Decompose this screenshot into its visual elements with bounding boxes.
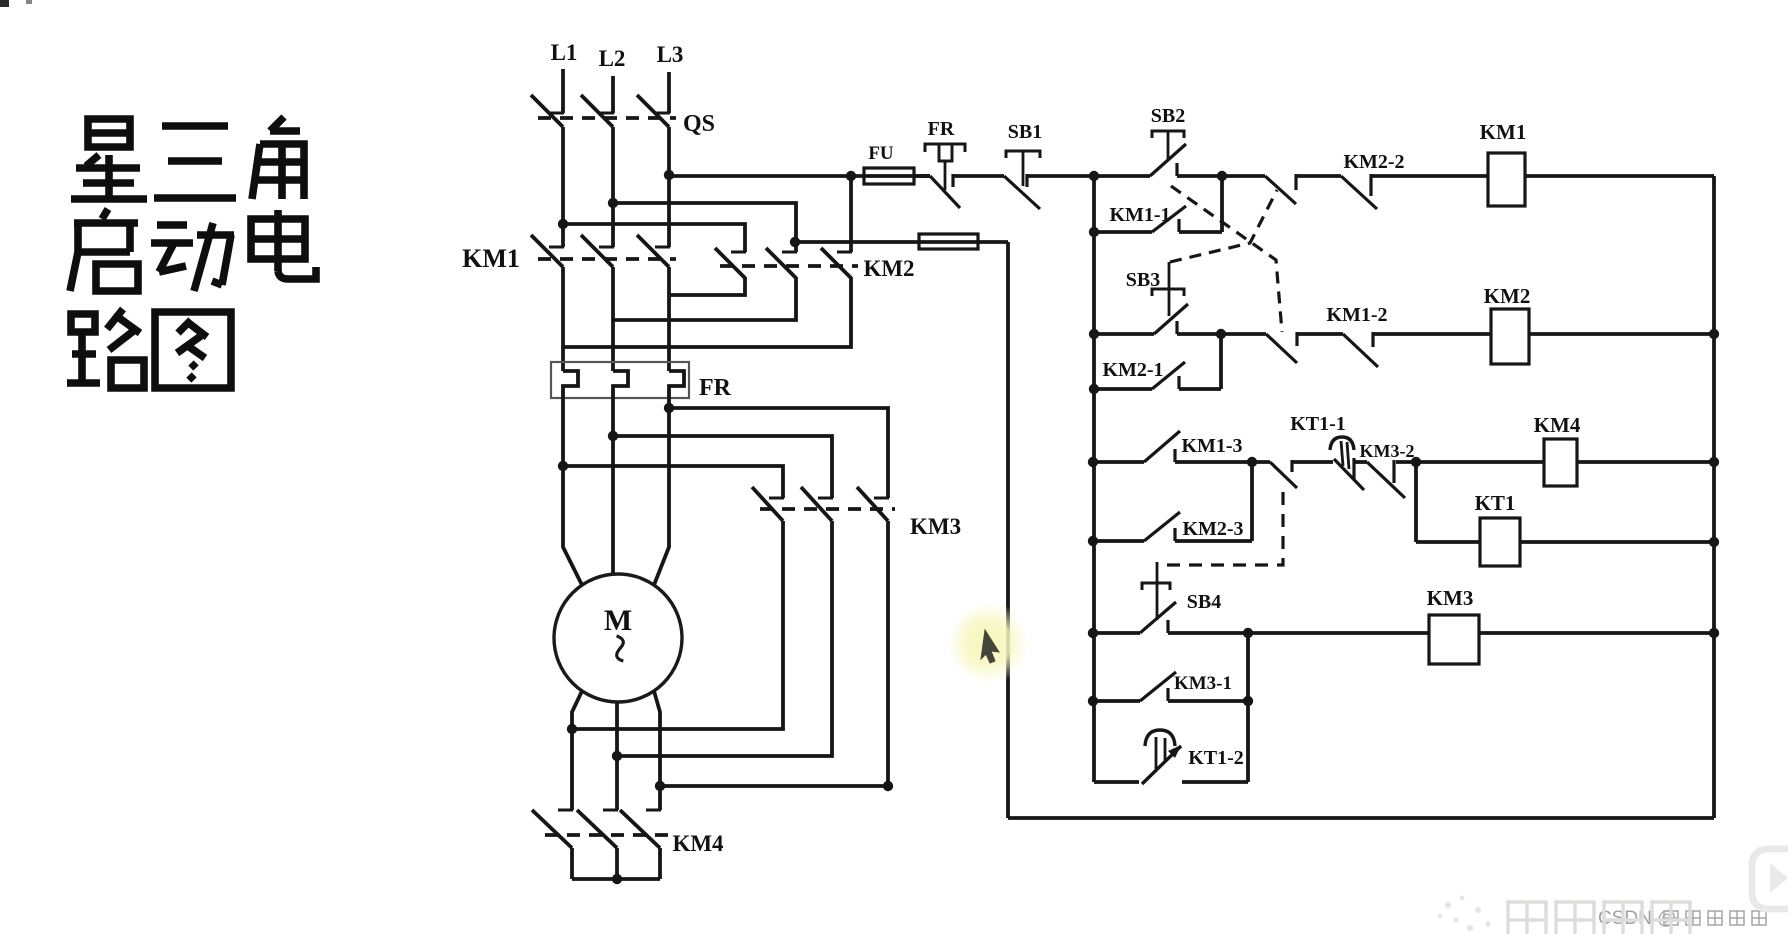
coil KM1 (1488, 153, 1525, 206)
wire rung1 to NC (1222, 174, 1265, 178)
wire motor lead mid (611, 398, 615, 575)
KM2-1 branch left wire (1094, 387, 1152, 391)
wire rung2 to KM1-2 (1297, 332, 1343, 336)
wire motor bottom mid (615, 702, 619, 810)
node L3 tap to KM3 (664, 403, 674, 413)
contactor KM2 pole 1 (731, 251, 746, 254)
node rung2 junction (1216, 329, 1226, 339)
svg-text:FU: FU (868, 143, 894, 164)
contactor KM4 pole 2 (603, 809, 618, 812)
SB3 stem (1168, 262, 1171, 316)
KT1-2 rung right wire (1182, 780, 1248, 784)
wire KM1 pole2 down (611, 267, 615, 371)
dashed link KT1-1 to SB4 (1162, 492, 1283, 565)
SB1 NC contact (1004, 176, 1040, 209)
SB4 linked NC contact rung3 (1270, 462, 1297, 488)
fuse FU body (864, 168, 914, 184)
KM2-1 branch vertical (1219, 334, 1223, 389)
svg-text:KM2-2: KM2-2 (1343, 151, 1404, 173)
node KM3 pole3 corner (883, 781, 893, 791)
SB1 stem (1022, 151, 1025, 186)
node right rail rung4 (1709, 628, 1719, 638)
coil KM3 (1429, 615, 1479, 664)
svg-text:KT1-2: KT1-2 (1188, 747, 1244, 769)
wire SB2 right (1177, 174, 1222, 178)
wire KT1-1 to KM3-2 (1354, 460, 1367, 464)
KM1-1 branch right wire (1179, 230, 1222, 234)
wire L3 to KM3 pole3 (669, 408, 888, 498)
wire FU to FR contact (914, 174, 930, 178)
wire FU node down to KM2 pole3 (849, 176, 853, 252)
wire to KT1-1 (1292, 460, 1333, 464)
node L2 tap to KM3 (608, 431, 618, 441)
node L1 tap (558, 219, 568, 229)
coil KM2 (1491, 309, 1529, 364)
KT1-2 NO delayed contact (1142, 746, 1181, 784)
node rail A km3-1 (1088, 696, 1098, 706)
wire L1 incoming (561, 69, 565, 113)
SB3 actuator (1152, 289, 1184, 296)
node rung3 junction (1247, 457, 1257, 467)
KT1 branch vertical (1414, 462, 1418, 542)
KM2-1 branch right wire (1179, 387, 1221, 391)
node L2 tap (608, 198, 618, 208)
wire through fuse FU (851, 174, 930, 178)
SB2 linked NC contact rung2 (1266, 334, 1297, 363)
wire to KM4 coil (1416, 460, 1544, 464)
wire KM3 pole1 down (572, 521, 783, 729)
SB4 actuator bar (1142, 583, 1170, 590)
contactor KM4 pole 1 (558, 809, 573, 812)
node rail A rung3 (1088, 457, 1098, 467)
KM3-1 branch vertical (1246, 633, 1250, 701)
wire KM1 pole1 down (561, 267, 565, 371)
node control tap 2 (790, 237, 800, 247)
wire L2 QS to KM1 (611, 127, 615, 247)
svg-text:KM2-3: KM2-3 (1182, 518, 1243, 540)
wire motor lead right (654, 398, 669, 585)
mouse cursor (981, 630, 999, 663)
wire KM2 coil to right rail (1529, 332, 1714, 336)
SB2 NO contact (1150, 144, 1186, 176)
FR control actuator (925, 144, 965, 152)
node motor mid / KM3 (612, 751, 622, 761)
wire KM3-2 to node (1396, 460, 1416, 464)
contactor KM1 pole 2 (599, 246, 614, 249)
svg-text:KM4: KM4 (672, 831, 724, 856)
wire motor bottom left (572, 691, 582, 810)
KM3-1 branch right wire (1168, 699, 1248, 703)
svg-text:KT1: KT1 (1475, 491, 1516, 515)
fuse FU2 body (919, 234, 978, 249)
svg-text:KM3: KM3 (1427, 586, 1474, 610)
wire tap to fuse 2 (795, 240, 1008, 244)
node motor left / KM3 (567, 724, 577, 734)
svg-text:KM3-2: KM3-2 (1360, 441, 1415, 461)
SB2 actuator (1152, 131, 1184, 138)
wire KM4 pole1 to star bus (570, 848, 574, 879)
svg-text:SB1: SB1 (1008, 121, 1042, 143)
SB3 linked NC contact rung1 (1265, 176, 1296, 204)
node L3 tap to FU (664, 170, 674, 180)
contactor KM4 pole 3 (646, 809, 661, 812)
dashed link SB3 to rung1 NC (1170, 190, 1277, 262)
svg-text:L1: L1 (551, 40, 578, 65)
svg-text:SB2: SB2 (1151, 105, 1185, 127)
KT1-2 delay arc (1145, 730, 1175, 746)
wire to KM3 coil (1248, 631, 1429, 635)
svg-text:KM1-1: KM1-1 (1109, 204, 1170, 226)
motor M circle (554, 574, 682, 702)
wire fuse2 down to bottom bus (1006, 242, 1010, 818)
svg-text:KM4: KM4 (1534, 413, 1581, 437)
svg-text:M: M (604, 604, 632, 637)
wire rung1 to KM2-2 (1296, 174, 1341, 178)
rung3 left wire (1093, 460, 1144, 464)
contactor KM1 pole 1 (549, 246, 564, 249)
wire motor bottom right (654, 691, 660, 810)
KM3 linkage dashed (760, 507, 895, 511)
KM1-1 branch left wire (1094, 230, 1152, 234)
FR heater element 1 (563, 371, 578, 398)
node rail A rung4 (1088, 628, 1098, 638)
contactor KM1 pole 3 (655, 246, 670, 249)
wire KM1-2 to KM2 coil (1373, 332, 1491, 336)
KM3-1 branch left wire (1093, 699, 1140, 703)
svg-text:KM2-1: KM2-1 (1102, 359, 1163, 381)
node right rail KT1 (1709, 537, 1719, 547)
rung4 left wire (1093, 631, 1140, 635)
wire KT1 coil to right rail (1520, 540, 1714, 544)
KM1-1 NO contact (1152, 206, 1186, 232)
wire KM2 pole1 out to L3 line (669, 277, 745, 295)
wire L2 tap to KM2 pole2 (613, 203, 796, 252)
svg-text:L3: L3 (657, 42, 684, 67)
wire L1 tap to KM2 pole1 (563, 224, 745, 252)
coil KM4 (1544, 439, 1577, 486)
wire L3 QS to KM1 (667, 127, 671, 247)
KM1-3 NO contact (1144, 431, 1180, 462)
wire motor lead left (563, 398, 582, 585)
title text 星三角启动电路图 (hand-drawn strokes) (67, 117, 316, 388)
svg-text:KM2: KM2 (1484, 284, 1531, 308)
node km3-1 left (1243, 696, 1253, 706)
svg-text:KM3-1: KM3-1 (1174, 673, 1232, 694)
faint big gray text (1508, 902, 1690, 934)
KM2-1 NO contact (1152, 362, 1185, 389)
node right rail rung3 (1709, 457, 1719, 467)
KM1 linkage dashed (538, 257, 676, 261)
KM2-3 branch right wire (1175, 539, 1252, 543)
bottom bus (1008, 816, 1714, 820)
wire KM4 coil to right rail (1577, 460, 1714, 464)
wire L1 to KM3 pole1 (563, 466, 783, 498)
dashed link SB2 to rung2 NC (1171, 186, 1282, 332)
KT1-1 NC delayed contact (1334, 459, 1364, 490)
wire L1 QS to KM1 (561, 127, 565, 247)
faint gear speckles (1438, 896, 1491, 932)
node right rail rung2 (1709, 329, 1719, 339)
QS linkage dashed (538, 116, 676, 120)
KM2-3 branch left wire (1093, 539, 1144, 543)
SB4 stem (1156, 562, 1159, 620)
wire FR to SB1 (953, 174, 1004, 178)
wire KM2-2 to KM1 coil (1371, 174, 1488, 178)
yellow highlight (946, 601, 1030, 685)
KM2-3 NO contact (1144, 512, 1180, 541)
contactor KM2 pole 3 (837, 251, 852, 254)
node motor right / KM3 (655, 781, 665, 791)
corner artifact (0, 0, 9, 7)
wire KM4 pole2 to star bus (615, 848, 619, 879)
KT1-1 delay arc (1330, 437, 1354, 450)
faint logo play button (1752, 849, 1788, 909)
thermal relay FR box (551, 362, 689, 398)
wire KM3 coil to right rail (1479, 631, 1714, 635)
node rung4 junction (1243, 628, 1253, 638)
KM2-2 NC contact (1341, 176, 1377, 209)
left rail (1092, 176, 1096, 782)
contactor KM2 pole 2 (782, 251, 797, 254)
wire KM2 pole2 out to L2 line (613, 277, 796, 320)
wire SB4 right (1168, 631, 1248, 635)
svg-text:KM1: KM1 (462, 244, 520, 273)
FR heater element 3 (669, 371, 684, 398)
node rail A rung2 (1089, 329, 1099, 339)
node rail A km1-1 (1089, 227, 1099, 237)
svg-text:KM1: KM1 (1480, 120, 1527, 144)
wire SB3 right (1177, 332, 1221, 336)
KM3-1 NO contact (1140, 672, 1176, 701)
node rung3 right junction (1411, 457, 1421, 467)
contactor KM3 pole 2 (818, 497, 833, 500)
wire L3 incoming (667, 72, 671, 113)
svg-text:FR: FR (699, 375, 732, 401)
node rail A km2-1 (1089, 384, 1099, 394)
switch QS pole 2 (599, 112, 614, 115)
switch QS pole 3 (655, 112, 670, 115)
node rail A km2-3 (1088, 536, 1098, 546)
wire SB1 to rail A (1027, 174, 1150, 178)
svg-text:QS: QS (683, 111, 715, 137)
FR control stem (944, 161, 947, 190)
KM1-2 NC contact (1343, 334, 1378, 367)
wire KM1-3 right (1175, 460, 1252, 464)
svg-text:KT1-1: KT1-1 (1290, 413, 1346, 435)
wire KM1-1 branch vertical (1220, 176, 1224, 232)
wire KM3 pole2 down (617, 521, 832, 756)
KM4 linkage dashed (545, 833, 668, 837)
wire KM2 pole3 out to L1 line (563, 277, 851, 347)
svg-text:FR: FR (928, 118, 955, 140)
motor tilde (612, 635, 628, 663)
wire top feed to FU (669, 174, 851, 178)
wire rung3 to NC (1252, 460, 1270, 464)
svg-text:KM3: KM3 (910, 514, 961, 539)
KT1-2 branch vertical right (1246, 701, 1250, 782)
node rail A top (1089, 171, 1099, 181)
wire rung2 to NC (1221, 332, 1266, 336)
node star point (612, 874, 622, 884)
svg-text:KM1-3: KM1-3 (1181, 435, 1242, 457)
wire L2 to KM3 pole2 (613, 436, 832, 498)
right rail (1712, 176, 1716, 818)
watermark cjk name glyphs (1664, 911, 1766, 925)
svg-text:KM1-2: KM1-2 (1326, 304, 1387, 326)
switch QS pole 1 (549, 112, 564, 115)
wire KM3 pole3 down (660, 521, 888, 786)
KT1-2 rung left wire (1094, 780, 1139, 784)
contactor KM3 pole 3 (874, 497, 889, 500)
SB3 NO contact (1154, 304, 1188, 334)
svg-text:KM2: KM2 (863, 256, 914, 281)
FR heater element 2 (613, 371, 628, 398)
coil KT1 (1480, 518, 1520, 566)
svg-text:SB4: SB4 (1187, 591, 1221, 613)
SB2 stem (1167, 131, 1170, 161)
SB4 NO contact (1140, 602, 1176, 633)
svg-text:L2: L2 (599, 46, 626, 71)
KM2-3 branch vertical (1250, 462, 1254, 541)
wire L2 incoming (611, 76, 615, 113)
contactor KM3 pole 1 (769, 497, 784, 500)
wire KM4 pole3 to star bus (658, 848, 662, 879)
KM2 linkage dashed (720, 264, 858, 268)
FR NC contact (930, 176, 960, 208)
wire KM1 coil to right rail (1525, 174, 1714, 178)
wire KM1 pole3 down (667, 267, 671, 371)
rung2 left wire (1094, 332, 1154, 336)
star point bus (572, 877, 660, 881)
node L1 tap to KM3 (558, 461, 568, 471)
KM3-2 NC contact (1367, 462, 1405, 498)
node FU feed (846, 171, 856, 181)
node rung1 junction (1217, 171, 1227, 181)
SB1 actuator (1006, 151, 1040, 158)
wire to KT1 coil (1416, 540, 1480, 544)
